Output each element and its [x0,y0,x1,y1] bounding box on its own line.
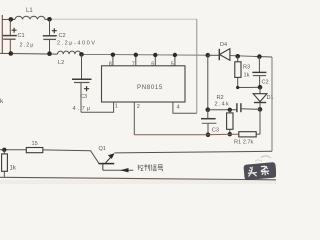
node A2 [47,17,52,22]
node B1 [9,51,14,56]
svg-text:C1: C1 [18,33,25,39]
svg-text:D1: D1 [267,95,274,101]
pin 8 [112,55,114,66]
wire: top rail right (faint) [50,18,197,20]
wire: C4 to node G [241,108,260,111]
diode D1 [253,87,273,109]
capacitor C2 (output) [252,57,268,88]
transistor Q1 [99,146,115,170]
wire: right edge vertical [271,57,273,151]
inductor L2 [58,51,81,54]
svg-text:PN8015: PN8015 [137,84,163,91]
wire: second rail [0,52,58,55]
wire: pin2 ground run [134,133,239,136]
svg-text:7: 7 [132,61,135,67]
node G [258,107,263,112]
svg-text:C3: C3 [80,94,87,100]
node J [2,148,6,152]
svg-text:2.2μ-400V: 2.2μ-400V [57,41,96,47]
svg-text:L1: L1 [26,8,33,14]
wire: base feed horizontal [0,149,26,151]
wire: C3 bottom to pin 1 [81,102,114,112]
svg-text:5: 5 [171,62,174,68]
wire: vertical from node C down [207,55,209,109]
capacitor C3 (lower) [201,110,219,135]
svg-text:R3: R3 [243,65,250,71]
resistor R3 [235,56,250,87]
svg-text:8: 8 [109,61,112,67]
svg-text:6: 6 [151,61,154,67]
svg-text:1k: 1k [10,166,17,172]
node C [206,53,211,58]
wire: mid horizontal row [208,109,237,111]
node F [258,85,263,90]
wire: drain vertical from top rail to pin4 loop [196,19,198,113]
arrow control input [120,168,129,172]
watermark toutiao [243,155,277,180]
wire: bottom rail [0,177,276,180]
wire: R3/C2 bottoms join [238,86,260,88]
svg-text:4.7μ: 4.7μ [73,106,93,112]
svg-text:1k: 1k [244,73,250,79]
svg-text:D4: D4 [220,42,227,48]
capacitor C4 (series, unlabeled) [236,103,238,112]
svg-text:C2: C2 [59,33,66,39]
svg-text:C3: C3 [212,128,219,134]
svg-text:Q1: Q1 [99,146,106,152]
pin 4 [173,102,197,113]
diode D4 [208,42,230,60]
node A1 [9,17,14,22]
node H [206,107,211,112]
svg-text:2: 2 [137,104,140,110]
IC U1 PN8015 [102,66,186,102]
node B2 [47,51,52,56]
wire: resistor to Q1 base [43,150,99,163]
wire: control signal lead [103,169,134,171]
svg-text:C2: C2 [262,80,269,86]
node I [206,133,211,138]
svg-text:R2: R2 [217,95,224,101]
resistor R1 [234,109,260,145]
svg-text:2.2μ: 2.2μ [20,43,35,49]
svg-text:L2: L2 [58,60,64,66]
resistor R5 (15) [26,148,43,153]
node B3 [79,52,84,57]
svg-text:4: 4 [177,104,180,110]
pin 7 [135,55,137,66]
resistor R4 (1k) [2,150,17,178]
svg-text:2.4k: 2.4k [215,102,230,108]
capacitor C1 [3,19,35,53]
svg-text:R1 2.7k: R1 2.7k [234,140,253,146]
svg-text:1: 1 [115,104,118,110]
pin 2 [133,102,135,135]
capacitor C2 [43,19,97,53]
resistor R2 [215,95,234,136]
node D [235,54,240,59]
capacitor C3 (4.7u) [72,54,92,112]
wire: left edge vertical [1,15,3,54]
node E [257,54,262,59]
pin 5 [174,55,176,66]
svg-text:15: 15 [32,141,38,147]
wire: emitter rail to right [115,151,273,153]
pin 6 [154,55,156,66]
label control signal (kong zhi xin hao) [138,164,163,171]
inductor L1 [11,16,50,19]
wire: top rail left segment [2,18,15,20]
